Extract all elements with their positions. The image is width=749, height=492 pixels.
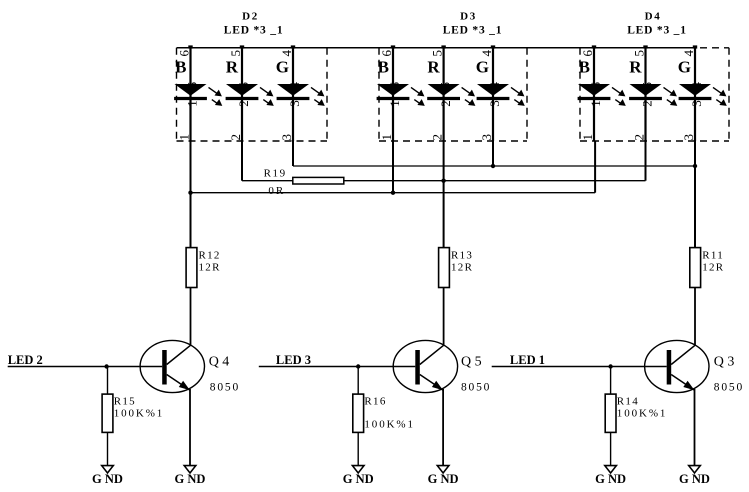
svg-text:8050: 8050 (210, 382, 240, 394)
D4 top pin number 5 (632, 50, 647, 57)
wire: red net from D2 pin 2 to R19 (242, 141, 293, 181)
junction: base resistor tap of Q4 (104, 364, 108, 368)
resistor R15 (102, 394, 113, 432)
D2 G anode-side pin digit (287, 82, 302, 89)
svg-text:G ND: G ND (92, 472, 123, 486)
svg-text:Q 4: Q 4 (209, 354, 230, 369)
LED B of D4 (triangle and cathode bar) (578, 84, 611, 99)
LED B of D3 (triangle and cathode bar) (377, 84, 410, 99)
light emission arrows of D4 B (612, 87, 626, 106)
value label 8050 of Q4 (210, 382, 240, 394)
ground label GND under R16 (343, 472, 374, 486)
ground label GND under R14 (595, 472, 626, 486)
wire: R14 bottom (610, 432, 612, 465)
svg-text:G ND: G ND (343, 472, 374, 486)
junction blob on rail at D3 pin 5 (441, 45, 445, 48)
net label LED1 (510, 353, 545, 367)
label R13 (451, 250, 473, 262)
D4 LED color letter G (678, 58, 691, 77)
D2 LED color letter R (226, 58, 239, 77)
transistor Q4 base bar (162, 350, 167, 385)
wire: blue net horizontal (D2.1-D3.1-D4.1) (191, 141, 596, 193)
junction blob on rail at D2 pin 6 (188, 45, 192, 48)
svg-text:G: G (678, 58, 691, 77)
ground symbol under Q5 emitter (437, 466, 449, 473)
svg-text:LED *3 _1: LED *3 _1 (627, 25, 687, 37)
D4 B cathode-side pin digit 1 (588, 100, 603, 107)
svg-text:2: 2 (438, 100, 453, 107)
transistor Q5 collector stroke (420, 345, 444, 364)
part type label LED*3_1 of D2 (224, 25, 284, 37)
svg-text:G ND: G ND (428, 472, 459, 486)
D4 pin wire column G (694, 48, 696, 141)
svg-text:1: 1 (580, 134, 595, 141)
transistor Q3 emitter stroke with arrow (671, 375, 694, 391)
D2 B anode-side pin digit (184, 82, 199, 89)
wire: base net of Q5 (259, 366, 416, 368)
designator label D4 (645, 11, 662, 23)
resistor R11 (690, 248, 701, 288)
svg-text:2: 2 (632, 134, 647, 141)
transistor Q4 collector stroke (167, 345, 191, 364)
value label 12R of R13 (451, 262, 473, 274)
light emission arrows of D4 G (713, 87, 727, 106)
svg-text:G: G (476, 58, 489, 77)
svg-text:B: B (175, 58, 186, 77)
D3 B cathode-side pin digit 1 (387, 100, 402, 107)
svg-text:B: B (579, 58, 590, 77)
svg-text:3: 3 (689, 100, 704, 107)
ground label GND under R15 (92, 472, 123, 486)
svg-text:R19: R19 (264, 168, 287, 180)
D2 bottom pin number 3 (279, 134, 294, 141)
junction: green net at D4 pin 3 (693, 164, 697, 168)
label R12 (199, 250, 221, 262)
transistor Q5 emitter stroke with arrow (420, 375, 443, 391)
resistor R16 (353, 394, 364, 432)
svg-text:100K%1: 100K%1 (617, 408, 668, 420)
svg-text:R: R (226, 58, 239, 77)
junction: red net at D3 pin 2 (441, 179, 445, 183)
D2 LED color letter G (276, 58, 289, 77)
junction: blue net at D3 pin 1 (391, 191, 395, 195)
transistor Q5 body circle (393, 340, 457, 392)
designator label D3 (460, 11, 477, 23)
svg-text:5: 5 (228, 50, 243, 57)
D2 top pin number 4 (279, 50, 294, 57)
D3 R anode-side pin digit (437, 82, 452, 89)
junction blob on rail at D2 pin 4 (291, 45, 295, 48)
svg-text:1: 1 (379, 134, 394, 141)
D4 G anode-side pin digit (689, 82, 704, 89)
svg-text:3: 3 (487, 100, 502, 107)
wire: emitter of Q5 to ground (442, 389, 444, 466)
value label 12R of R11 (702, 262, 724, 274)
svg-text:3: 3 (287, 100, 302, 107)
junction: base resistor tap of Q5 (356, 364, 360, 368)
svg-text:LED *3 _1: LED *3 _1 (224, 25, 284, 37)
D3 LED color letter G (476, 58, 489, 77)
value label 100K%1 of R14 (617, 408, 668, 420)
D3 B anode-side pin digit (387, 82, 402, 89)
D2 top pin number 6 (177, 50, 192, 57)
D4 LED color letter B (579, 58, 590, 77)
junction: green net at D3 pin 3 (491, 164, 495, 168)
net label LED2 (8, 353, 43, 367)
wire: collector of Q3 (694, 288, 696, 346)
wire: emitter of Q4 to ground (189, 389, 191, 466)
svg-text:LED 1: LED 1 (510, 353, 545, 367)
wire: green net horizontal (D2.3-D3.3-D4.3) (293, 141, 695, 166)
D4 top pin number 4 (681, 50, 696, 57)
wire: collector of Q5 (443, 288, 445, 346)
D3 top pin number 6 (379, 50, 394, 57)
svg-text:Q 3: Q 3 (714, 354, 735, 369)
D2 pin wire column G (292, 48, 294, 141)
LED B of D2 (triangle and cathode bar) (174, 84, 207, 99)
LED module D4 dashed body outline (580, 48, 729, 141)
svg-text:LED 2: LED 2 (8, 353, 43, 367)
wire: R15 top (107, 367, 109, 395)
transistor Q4 emitter stroke with arrow (167, 375, 190, 391)
svg-text:2: 2 (430, 134, 445, 141)
part type label LED*3_1 of D3 (443, 25, 503, 37)
D4 G cathode-side pin digit 3 (689, 100, 704, 107)
transistor Q3 body circle (645, 340, 709, 392)
svg-text:G ND: G ND (679, 472, 710, 486)
ground symbol under R16 (352, 466, 364, 473)
svg-text:R12: R12 (199, 250, 221, 262)
svg-text:R15: R15 (114, 396, 136, 408)
resistor R12 (186, 248, 197, 288)
svg-text:R: R (427, 58, 440, 77)
svg-text:2: 2 (228, 134, 243, 141)
wire: base net of Q4 (8, 366, 163, 368)
junction blob on rail at D4 pin 4 (693, 45, 697, 48)
svg-text:6: 6 (379, 50, 394, 57)
D4 LED color letter R (629, 58, 642, 77)
value label 12R of R12 (199, 262, 221, 274)
svg-text:R16: R16 (364, 396, 386, 408)
D3 G anode-side pin digit (487, 82, 502, 89)
wire: emitter of Q3 to ground (694, 389, 696, 466)
D4 R anode-side pin digit (639, 82, 654, 89)
svg-text:1: 1 (185, 100, 200, 107)
D2 B cathode-side pin digit 1 (185, 100, 200, 107)
wire: R16 bottom (357, 432, 359, 465)
svg-text:2: 2 (640, 100, 655, 107)
wire: R16 top (357, 367, 359, 395)
ground symbol under Q4 emitter (184, 466, 196, 473)
D3 LED color letter R (427, 58, 440, 77)
D3 bottom pin number 2 (430, 134, 445, 141)
D3 top pin number 4 (479, 50, 494, 57)
svg-text:G ND: G ND (595, 472, 626, 486)
D4 bottom pin number 2 (632, 134, 647, 141)
svg-text:3: 3 (681, 134, 696, 141)
svg-text:1: 1 (588, 100, 603, 107)
svg-text:Q 5: Q 5 (461, 354, 482, 369)
D3 bottom pin number 3 (479, 134, 494, 141)
D3 pin wire column G (492, 48, 494, 141)
D3 bottom pin number 1 (379, 134, 394, 141)
junction blob on rail at D4 pin 5 (643, 45, 647, 48)
part type label LED*3_1 of D4 (627, 25, 687, 37)
D2 pin wire column B (189, 48, 191, 141)
light emission arrows of D3 B (411, 87, 425, 106)
svg-text:12R: 12R (702, 262, 724, 274)
junction: base resistor tap of Q3 (608, 364, 612, 368)
junction blob on rail at D4 pin 6 (592, 45, 596, 48)
D2 bottom pin number 2 (228, 134, 243, 141)
label R11 (702, 250, 724, 262)
LED module D3 dashed body outline (379, 48, 527, 141)
svg-text:12R: 12R (199, 262, 221, 274)
wire: red net from R19 to D3.2 and D4.2 (344, 141, 646, 181)
resistor R19 (293, 177, 344, 184)
svg-text:6: 6 (580, 50, 595, 57)
D2 pin wire column R (241, 48, 243, 141)
svg-text:2: 2 (236, 100, 251, 107)
net label LED3 (276, 353, 311, 367)
wire: LED anode supply rail (177, 47, 695, 49)
D3 G cathode-side pin digit 3 (487, 100, 502, 107)
designator label D2 (242, 11, 259, 23)
D2 LED color letter B (175, 58, 186, 77)
LED R of D3 (triangle and cathode bar) (427, 84, 460, 99)
label R16 (364, 396, 386, 408)
wire: base net of Q3 (492, 366, 667, 368)
svg-text:0R: 0R (268, 185, 285, 197)
D2 top pin number 5 (228, 50, 243, 57)
value label 100K%1 of R16 (364, 419, 415, 431)
D3 LED color letter B (378, 58, 389, 77)
svg-text:B: B (378, 58, 389, 77)
label R14 (617, 396, 639, 408)
LED G of D4 (triangle and cathode bar) (679, 84, 712, 99)
LED R of D4 (triangle and cathode bar) (629, 84, 662, 99)
light emission arrows of D2 G (311, 87, 325, 106)
label Q3 (714, 354, 735, 369)
svg-text:D4: D4 (645, 11, 662, 23)
svg-text:4: 4 (279, 50, 294, 57)
label R19 (264, 168, 287, 180)
label Q5 (461, 354, 482, 369)
D4 top pin number 6 (580, 50, 595, 57)
svg-text:100K%1: 100K%1 (364, 419, 415, 431)
D4 pin wire column B (593, 48, 595, 141)
LED R of D2 (triangle and cathode bar) (226, 84, 259, 99)
D2 G cathode-side pin digit 3 (287, 100, 302, 107)
svg-text:1: 1 (177, 134, 192, 141)
svg-text:4: 4 (681, 50, 696, 57)
wire: D4 pin3 column down to R11 (694, 141, 696, 248)
svg-text:D2: D2 (242, 11, 259, 23)
svg-text:R: R (629, 58, 642, 77)
D3 pin wire column B (392, 48, 394, 141)
ground label GND under Q5 emitter (428, 472, 459, 486)
svg-text:1: 1 (387, 100, 402, 107)
D3 top pin number 5 (430, 50, 445, 57)
light emission arrows of D2 R (260, 87, 274, 106)
LED module D2 dashed body outline (177, 48, 328, 141)
wire: collector of Q4 (190, 288, 192, 346)
svg-text:12R: 12R (451, 262, 473, 274)
svg-text:D3: D3 (460, 11, 477, 23)
svg-text:4: 4 (479, 50, 494, 57)
D2 R cathode-side pin digit 2 (236, 100, 251, 107)
D2 R anode-side pin digit (236, 82, 251, 89)
svg-text:G: G (276, 58, 289, 77)
wire: R15 bottom (107, 432, 109, 465)
junction: blue net at D2 pin 1 (188, 191, 192, 195)
transistor Q4 body circle (140, 340, 204, 392)
resistor R14 (605, 394, 616, 432)
ground symbol under R15 (102, 466, 114, 473)
wire: D2 pin1 column down to R12 (190, 141, 192, 248)
LED G of D3 (triangle and cathode bar) (477, 84, 510, 99)
D3 R cathode-side pin digit 2 (438, 100, 453, 107)
svg-text:6: 6 (177, 50, 192, 57)
D4 B anode-side pin digit (588, 82, 603, 89)
svg-text:3: 3 (279, 134, 294, 141)
value label 8050 of Q3 (714, 382, 744, 394)
LED G of D2 (triangle and cathode bar) (277, 84, 310, 99)
transistor Q3 collector stroke (671, 345, 695, 364)
value label 8050 of Q5 (461, 382, 491, 394)
light emission arrows of D3 G (511, 87, 525, 106)
svg-text:LED 3: LED 3 (276, 353, 311, 367)
ground label GND under Q3 emitter (679, 472, 710, 486)
svg-text:R11: R11 (702, 250, 724, 262)
label R15 (114, 396, 136, 408)
D2 bottom pin number 1 (177, 134, 192, 141)
wire: R14 top (610, 367, 612, 395)
svg-text:G ND: G ND (175, 472, 206, 486)
transistor Q5 base bar (415, 350, 420, 385)
ground symbol under Q3 emitter (689, 466, 701, 473)
value label 0R (268, 185, 285, 197)
D4 R cathode-side pin digit 2 (640, 100, 655, 107)
junction blob on rail at D3 pin 6 (391, 45, 395, 48)
light emission arrows of D3 R (462, 87, 476, 106)
value label 100K%1 of R15 (114, 408, 165, 420)
light emission arrows of D2 B (209, 87, 223, 106)
svg-text:100K%1: 100K%1 (114, 408, 165, 420)
ground label GND under Q4 emitter (175, 472, 206, 486)
D4 pin wire column R (644, 48, 646, 141)
D3 pin wire column R (443, 48, 445, 141)
D4 bottom pin number 3 (681, 134, 696, 141)
svg-text:R14: R14 (617, 396, 639, 408)
svg-text:5: 5 (430, 50, 445, 57)
svg-text:5: 5 (632, 50, 647, 57)
transistor Q3 base bar (667, 350, 672, 385)
svg-text:R13: R13 (451, 250, 473, 262)
svg-text:LED *3 _1: LED *3 _1 (443, 25, 503, 37)
junction blob on rail at D3 pin 4 (491, 45, 495, 48)
svg-text:3: 3 (479, 134, 494, 141)
D4 bottom pin number 1 (580, 134, 595, 141)
svg-text:8050: 8050 (461, 382, 491, 394)
junction blob on rail at D2 pin 5 (240, 45, 244, 48)
svg-text:8050: 8050 (714, 382, 744, 394)
wire: D3 pin2 column down to R13 (443, 141, 445, 248)
resistor R13 (439, 248, 450, 288)
light emission arrows of D4 R (664, 87, 678, 106)
label Q4 (209, 354, 230, 369)
ground symbol under R14 (605, 466, 617, 473)
